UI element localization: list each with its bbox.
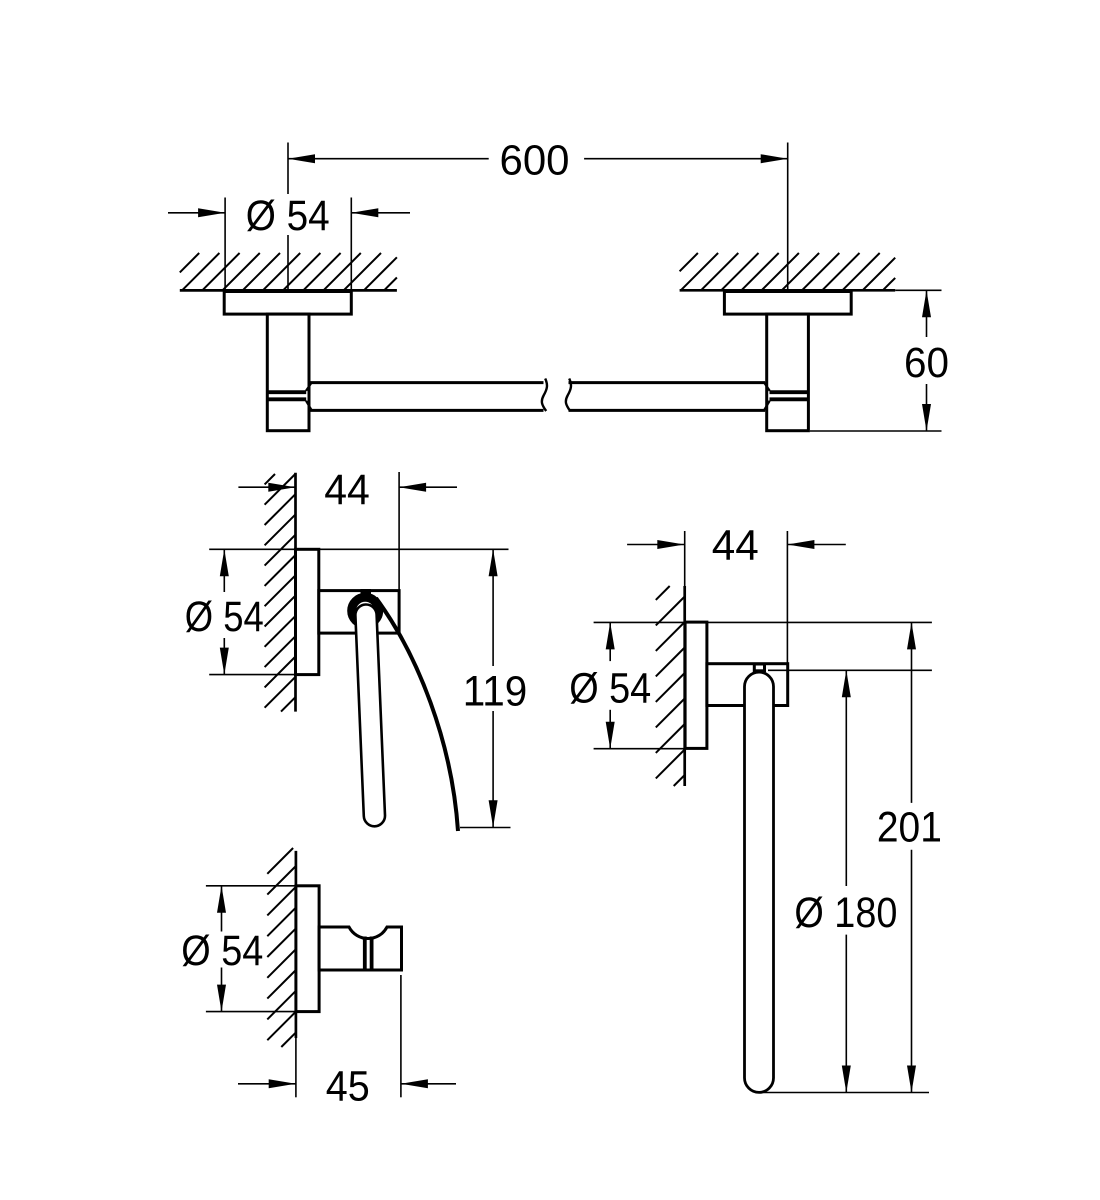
dim 60: extension lines: [895, 289, 941, 291]
ring profile capsule: [745, 672, 774, 1092]
ring dim 44: extension line front face: [786, 531, 788, 664]
ring wall hatching: [656, 586, 685, 786]
hook dim 45: extension line right: [400, 975, 402, 1097]
dim 600 centerline right: [787, 143, 789, 291]
tp dim 44: line + arrows: [238, 486, 295, 488]
svg-text:119: 119: [463, 668, 528, 716]
wall top left: surface line: [180, 289, 397, 292]
hook wall hatching: [267, 848, 296, 1047]
svg-text:Ø 54: Ø 54: [185, 593, 264, 641]
svg-text:Ø 54: Ø 54: [246, 192, 330, 240]
towel bar left post: [267, 314, 309, 431]
ring dim diam54: line + arrows: [609, 622, 611, 661]
ring dim 180: extension line top: [768, 669, 932, 671]
dim diam54 top: extension lines: [224, 198, 226, 291]
svg-text:Ø 54: Ø 54: [181, 927, 263, 975]
svg-text:44: 44: [712, 522, 759, 570]
tp dim 44: extension line front face: [398, 472, 400, 591]
tp dim 119: line + arrows: [492, 549, 494, 666]
tp dim diam54: extension lines: [209, 548, 295, 550]
wall top right hatching: [680, 253, 896, 290]
hook dim diam54: line + arrows: [221, 886, 223, 932]
towel bar left chamfers: [306, 383, 312, 391]
towel bar left flange: [224, 292, 351, 315]
svg-text:201: 201: [877, 804, 942, 852]
svg-text:44: 44: [324, 466, 370, 514]
ring flange: [685, 622, 707, 748]
tp holder wall hatching: [265, 474, 296, 712]
dim 600 line + arrows: [288, 158, 489, 160]
wall top left hatching: [180, 253, 397, 290]
towel bar break line left: [542, 379, 547, 412]
tp dim diam54: line + arrows: [223, 549, 225, 592]
towel bar right collar: [770, 390, 809, 394]
dim diam54 top: line + arrows: [168, 212, 225, 214]
ring holder block: [707, 664, 788, 706]
tp holder flange: [296, 549, 319, 674]
towel bar rod left segment: [311, 381, 544, 384]
ring dim 201: extension line top: [594, 621, 932, 623]
ring pivot pin: [754, 664, 764, 671]
dim 600 centerline left: [287, 143, 289, 195]
ring dim 180: line + arrows: [845, 670, 847, 886]
hook dim 45: line + arrows: [238, 1083, 296, 1085]
towel bar break line right: [566, 379, 571, 412]
svg-text:600: 600: [500, 137, 570, 185]
tp holder spring wire: [376, 598, 458, 831]
wall top right: surface line: [680, 289, 896, 292]
tp holder roll rod: [355, 604, 385, 826]
towel bar right post: [767, 314, 809, 431]
towel bar left collar: [267, 390, 306, 394]
ring dims: extension line bottom: [762, 1092, 929, 1094]
ring dim diam54: extension line bottom: [594, 748, 707, 750]
hook flange: [296, 886, 319, 1012]
tp holder wall line: [294, 473, 297, 712]
tp holder arm block: [319, 591, 399, 634]
hook body: [319, 927, 401, 970]
svg-text:Ø 54: Ø 54: [569, 664, 651, 712]
svg-text:60: 60: [904, 339, 949, 387]
towel bar right flange: [724, 292, 851, 315]
tp holder pivot ring: [352, 597, 379, 624]
ring dim 201: line + arrows: [911, 622, 913, 803]
hook wall line: [295, 851, 298, 1038]
tp holder pivot pin: [361, 589, 372, 595]
hook dim diam54: extension lines: [206, 885, 319, 887]
ring dim 44: line + arrows: [627, 544, 684, 546]
hook waist lines: [363, 937, 367, 971]
towel bar rod right segment: [569, 381, 766, 384]
tp dim 119: extension lines: [319, 548, 509, 550]
ring wall line: [684, 531, 686, 586]
svg-text:Ø 180: Ø 180: [794, 889, 897, 937]
towel bar right chamfers: [764, 383, 770, 391]
svg-text:45: 45: [326, 1062, 370, 1110]
dim 60: line + arrows: [926, 290, 928, 337]
